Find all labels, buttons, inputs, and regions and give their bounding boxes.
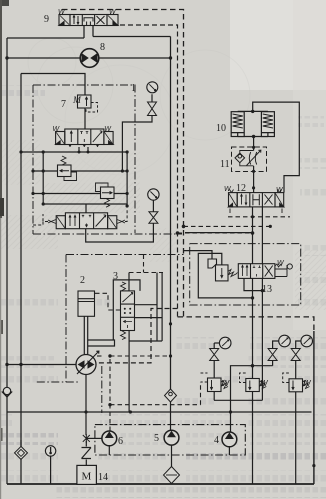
- shaft coupling mark: [83, 434, 90, 443]
- one-way throttle 11: [232, 147, 267, 172]
- wire relief1 column: [213, 343, 215, 400]
- relief 2 bottom: [240, 373, 267, 392]
- svg-text:5: 5: [154, 433, 159, 444]
- scan edge artifacts: [0, 0, 9, 499]
- svg-text:M: M: [72, 96, 82, 106]
- wire cylinder rod to pump1: [84, 301, 87, 356]
- wire top line A: [7, 37, 84, 39]
- wire pump1 left: [7, 364, 76, 366]
- wire pump4 drop: [228, 447, 230, 455]
- svg-text:11: 11: [220, 159, 230, 170]
- svg-text:2: 2: [80, 275, 85, 286]
- wire valve9 drops: [84, 26, 93, 39]
- wire filter left stem: [20, 440, 22, 446]
- motor 8: [80, 49, 99, 68]
- wire relief B line: [33, 193, 127, 195]
- wire thermometer stem: [50, 456, 52, 484]
- wire 13 out: [244, 279, 262, 291]
- wire valve12 drops: [253, 207, 263, 379]
- svg-text:12: 12: [236, 183, 246, 194]
- svg-text:7: 7: [61, 99, 66, 110]
- valve 12 directional: [229, 190, 284, 214]
- gauge r1: [219, 337, 231, 349]
- wire relief3 column: [296, 341, 301, 379]
- faint bleed-through layer: [0, 38, 326, 310]
- pump 1 variable: [76, 351, 99, 374]
- gauge 1: [147, 82, 158, 93]
- wire right rail upper: [170, 37, 172, 390]
- shutoff valve 2: [149, 212, 158, 224]
- svg-text:13: 13: [262, 284, 272, 295]
- svg-text:8: 8: [100, 42, 105, 53]
- pump 6: [102, 431, 117, 446]
- gauge r2: [279, 335, 291, 347]
- wire pump4 riser: [231, 366, 253, 432]
- wire left rail: [6, 38, 8, 484]
- wire top line B: [93, 36, 171, 38]
- wire y204 line: [43, 204, 127, 213]
- pump 5: [164, 430, 179, 445]
- wire rail2: [20, 74, 22, 485]
- valve 13 assembly: [208, 259, 292, 281]
- electric motor 14: [77, 465, 97, 484]
- wire zigzag coupling: [82, 441, 92, 465]
- pumps dashed box: [95, 425, 245, 455]
- wire coupling to pump6: [86, 437, 102, 439]
- wire cyl10 bottoms: [238, 136, 268, 138]
- shutoff r2: [268, 349, 277, 361]
- wire relief3 drop: [295, 390, 297, 485]
- svg-text:4: 4: [214, 435, 219, 446]
- wire x130 drop: [128, 331, 130, 413]
- relief valve B: [96, 183, 115, 207]
- svg-text:10: 10: [216, 123, 226, 134]
- wire right rail: [313, 331, 315, 484]
- wire pump6 drop: [108, 446, 110, 455]
- pump 4: [222, 432, 237, 447]
- brake cylinders 10: [231, 112, 274, 137]
- svg-text:1: 1: [131, 83, 136, 94]
- cylinder 2: [78, 291, 95, 316]
- shutoff valve 1: [148, 102, 157, 116]
- wire bottom rail: [7, 483, 314, 485]
- valve 7b directional: [56, 129, 114, 147]
- wire relief2 column: [253, 341, 279, 366]
- wire x127 riser: [126, 151, 128, 206]
- dash-dot group boundaries: [33, 85, 301, 413]
- wire valve7 to valve7b: [84, 108, 86, 129]
- wire 10 to 11: [253, 137, 255, 151]
- wire 13 loop: [198, 253, 252, 298]
- wire pump1 stroke box: [88, 340, 115, 346]
- shutoff r3: [291, 349, 300, 361]
- wire 11 to 12: [253, 166, 255, 193]
- dashed pilots of valve 7c: [33, 208, 127, 225]
- wire pump5 drop filter: [171, 445, 173, 484]
- valve 7c directional: [48, 213, 125, 229]
- wire cyl10 tops: [238, 110, 268, 112]
- W letter marks: [53, 9, 313, 388]
- svg-text:9: 9: [44, 14, 49, 25]
- wire valve3 right drops: [129, 273, 162, 342]
- wire gauge2 branch: [86, 200, 154, 242]
- wire 13 reducing feed: [184, 251, 213, 259]
- left rail coupler: [2, 387, 12, 397]
- wire pump1 shaft down: [85, 375, 87, 436]
- shutoff r1: [210, 349, 219, 361]
- wire valve3 left loop: [113, 280, 140, 340]
- main wires middle-left: [7, 94, 312, 484]
- dashed boundary D2: [97, 25, 178, 363]
- filter on rail2: [15, 446, 28, 459]
- valve 3 vertical stack: [121, 282, 135, 340]
- wire gauge1br stub: [214, 342, 219, 344]
- wire y411 line: [7, 411, 312, 413]
- valve 9 directional: [59, 15, 118, 26]
- wire x262 drop: [214, 291, 262, 401]
- dashed boundary D1: [62, 10, 314, 332]
- valve 7 brake valve: [72, 95, 98, 112]
- svg-text:3: 3: [113, 271, 118, 282]
- relief 1 bottom: [201, 373, 229, 392]
- wire box2 top: [21, 74, 85, 96]
- gauge 2: [148, 189, 159, 200]
- wire x43 riser: [42, 152, 44, 204]
- dashed pilot lines near valve 12: [95, 217, 290, 431]
- wire relief A line: [33, 170, 127, 172]
- gauge r3: [301, 335, 313, 347]
- svg-text:M: M: [82, 471, 92, 483]
- check valve on pump5 riser: [165, 389, 177, 402]
- wire valve3 top riser: [128, 273, 130, 291]
- wire brake feed: [253, 102, 300, 193]
- wire y232 link: [185, 232, 253, 234]
- relief 3 bottom: [283, 373, 310, 392]
- wire relief2 drop: [252, 391, 254, 484]
- wire motor line: [7, 57, 171, 59]
- wire gauge1 branch: [122, 94, 152, 171]
- svg-text:6: 6: [118, 436, 123, 447]
- thermometer: [45, 446, 55, 456]
- suction filter: [164, 467, 180, 484]
- relief valve A: [58, 156, 77, 181]
- wire pump5 riser: [170, 401, 172, 430]
- wire under valve7b: [21, 147, 127, 152]
- svg-text:14: 14: [98, 472, 108, 483]
- main wires right side: [184, 102, 314, 484]
